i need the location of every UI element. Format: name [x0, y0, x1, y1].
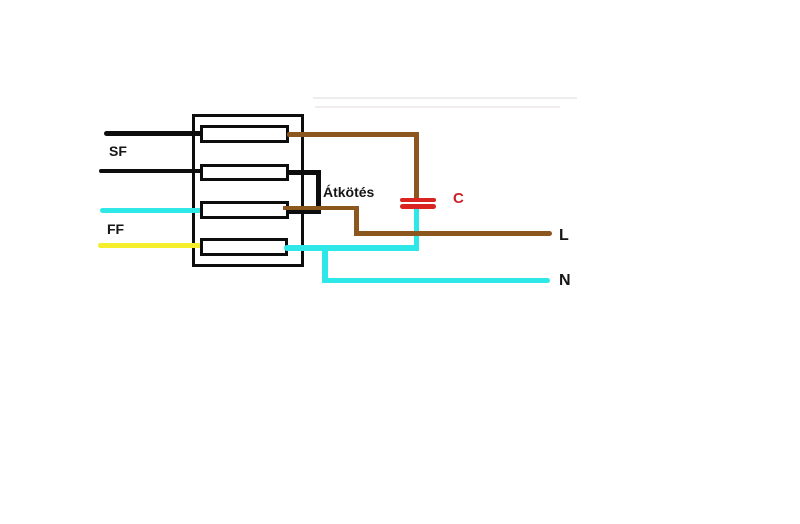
- faint artifact line top: [313, 97, 577, 99]
- wire: cyan N line horizontal: [322, 278, 551, 284]
- terminal 4: [200, 238, 288, 256]
- jumper (Átkötés) top horizontal from terminal 2: [287, 170, 321, 175]
- label Átkötés: [323, 185, 374, 199]
- label FF: [107, 222, 124, 236]
- wire: yellow FF feed (left to terminal 4): [98, 243, 207, 248]
- jumper bottom horizontal to terminal 3: [288, 210, 321, 214]
- label SF: [109, 144, 127, 158]
- wire: brown vertical to L line: [354, 206, 359, 237]
- wire: cyan feed (left to terminal 3): [100, 208, 207, 213]
- terminal 2: [200, 164, 289, 181]
- wire: brown from terminal 3 horizontal: [283, 206, 358, 211]
- wire: black SF phase 2 (left to terminal 2): [99, 169, 206, 174]
- wire: brown L line horizontal: [354, 231, 552, 236]
- wire: cyan vertical below capacitor: [414, 209, 419, 252]
- wire: cyan vertical branch down to N: [322, 245, 328, 284]
- faint artifact line lower: [315, 106, 560, 108]
- terminal 3: [200, 201, 289, 219]
- label C: [453, 191, 464, 206]
- wire: brown from terminal 1 horizontal: [287, 132, 419, 137]
- wire: cyan from terminal 4 horizontal: [284, 245, 419, 251]
- wire: brown vertical down to capacitor: [414, 132, 419, 199]
- wire: black SF phase 1 (left to terminal 1): [104, 131, 206, 136]
- jumper vertical segment: [316, 170, 321, 214]
- label N: [559, 273, 571, 289]
- terminal block outer box: [192, 114, 304, 267]
- capacitor C plates: [400, 198, 436, 203]
- terminal 1: [200, 125, 289, 143]
- label L: [559, 228, 569, 244]
